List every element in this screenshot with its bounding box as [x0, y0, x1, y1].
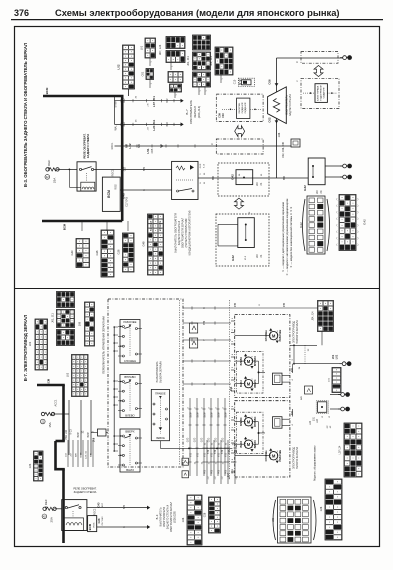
svg-text:G48: G48 [97, 518, 101, 523]
svg-text:B/R: B/R [166, 98, 169, 102]
svg-text:ВСМ: ВСМ [63, 223, 67, 230]
svg-text:M: M [272, 453, 276, 458]
svg-text:СИДЕНИЙ: СИДЕНИЙ [244, 102, 247, 113]
svg-text:L07 J01: L07 J01 [152, 96, 156, 107]
svg-text:ROS: ROS [94, 522, 96, 527]
svg-text:① — модели с дистанционным упр: ① — модели с дистанционным управлением з… [281, 202, 285, 272]
svg-text:(: ( [337, 230, 338, 234]
svg-text:1: 1 [151, 83, 153, 84]
svg-text:B/R: B/R [76, 453, 78, 457]
svg-text:L07 L24: L07 L24 [339, 445, 342, 454]
svg-text:ВНИЗ: ВНИЗ [126, 468, 134, 472]
svg-text:C06: C06 [268, 79, 272, 85]
svg-text:J08: J08 [78, 321, 82, 326]
svg-text:G42: G42 [231, 174, 235, 180]
svg-text:B/R: B/R [301, 396, 303, 400]
svg-text:C10: C10 [234, 79, 237, 84]
svg-text:J/C: J/C [327, 425, 329, 429]
svg-text:G/O: G/O [207, 438, 210, 443]
svg-text:P/B: P/B [203, 470, 206, 474]
svg-text:C: C [295, 61, 299, 63]
svg-text:): ) [358, 230, 359, 234]
svg-text:P/Bl: P/Bl [284, 302, 286, 307]
svg-text:M-WH: M-WH [115, 100, 118, 107]
svg-text:1: 1 [172, 66, 174, 67]
svg-text:J09: J09 [92, 437, 96, 442]
svg-text:G42: G42 [231, 255, 235, 261]
svg-text:ВВЕРХ: ВВЕРХ [125, 429, 134, 433]
svg-text:ЗАДНЕГО СТЕКЛА: ЗАДНЕГО СТЕКЛА [86, 134, 90, 159]
svg-text:M: M [272, 333, 276, 338]
svg-text:376: 376 [14, 8, 29, 18]
svg-text:J04, J14: J04, J14 [312, 311, 315, 321]
svg-text:L23: L23 [309, 420, 312, 425]
svg-text:214: 214 [227, 472, 230, 477]
svg-text:B/R: B/R [284, 176, 286, 180]
svg-text:Y/Bl: Y/Bl [228, 449, 231, 454]
svg-text:② — модели с автоматическим уп: ② — модели с автоматическим управлением … [285, 198, 289, 275]
svg-text:PNK L03: PNK L03 [65, 430, 68, 440]
svg-text:L02: L02 [117, 64, 121, 70]
svg-text:U07, L24: U07, L24 [158, 44, 162, 55]
svg-text:B/R: B/R [166, 122, 169, 126]
svg-text:ВПРАВО: ВПРАВО [124, 375, 136, 379]
svg-text:Модели с оборудованием зеркал: Модели с оборудованием зеркал [315, 445, 317, 481]
svg-text:РЕЛЕ ОБОГРЕВАТ.: РЕЛЕ ОБОГРЕВАТ. [83, 133, 87, 158]
svg-text:C01: C01 [141, 71, 145, 76]
svg-text:): ) [358, 223, 359, 227]
svg-text:ПЕРЕКЛЮЧАТЕЛЬ УПРАВЛЕНИЯ ЗЕРКА: ПЕРЕКЛЮЧАТЕЛЬ УПРАВЛЕНИЯ ЗЕРКАЛАМИ [102, 316, 106, 374]
svg-text:G43: G43 [97, 502, 101, 507]
svg-text:L23: L23 [272, 517, 275, 522]
svg-text:G07: G07 [124, 166, 127, 171]
svg-text:Y/G: Y/G [198, 453, 200, 457]
svg-text:Bl/W: Bl/W [211, 412, 214, 418]
svg-text:РАБОЧЕЕ: РАБОЧЕЕ [123, 320, 136, 324]
svg-text:ROC2: ROC2 [94, 508, 97, 515]
svg-text:B/R: B/R [143, 167, 146, 171]
svg-text:B/R: B/R [213, 176, 215, 180]
svg-text:15A: 15A [48, 422, 52, 427]
svg-text:P/B: P/B [217, 470, 220, 474]
svg-text:1: 1 [176, 94, 178, 95]
svg-text:G32: G32 [299, 222, 303, 228]
svg-text:(: ( [337, 210, 338, 214]
svg-text:): ) [358, 197, 359, 201]
svg-text:ПРАВОЕ: ПРАВОЕ [155, 392, 166, 396]
svg-text:ЗАДНЕГО СТЕКЛА: ЗАДНЕГО СТЕКЛА [289, 94, 292, 116]
svg-text:BCM: BCM [88, 523, 92, 530]
svg-text:C02, C06, C09: C02, C06, C09 [282, 141, 285, 157]
svg-text:C17 G43: C17 G43 [102, 516, 104, 526]
svg-text:WAL: WAL [115, 125, 118, 131]
svg-text:G26: G26 [182, 517, 185, 522]
svg-text:G08: G08 [278, 132, 281, 137]
svg-text:Bl/W: Bl/W [190, 412, 193, 418]
svg-text:G/O: G/O [193, 438, 196, 443]
svg-text:25A: 25A [53, 178, 57, 183]
svg-text:J06: J06 [125, 143, 128, 148]
svg-text:G/O: G/O [200, 438, 203, 443]
svg-text:Bl/W: Bl/W [87, 432, 90, 438]
svg-text:B/R: B/R [91, 453, 93, 457]
svg-text:ЛЕВОГО ЗЕРКАЛА: ЛЕВОГО ЗЕРКАЛА [296, 447, 299, 469]
svg-text:G/O: G/O [214, 438, 217, 443]
svg-text:B/R: B/R [123, 122, 126, 126]
svg-text:G43: G43 [70, 250, 74, 255]
svg-text:C: C [210, 143, 214, 145]
svg-text:RR DEF: RR DEF [44, 499, 48, 510]
svg-text:J01, J11: J01, J11 [51, 313, 55, 323]
svg-text:СИДЕНИЙ: СИДЕНИЙ [323, 87, 326, 98]
svg-text:P/Bl: P/Bl [203, 320, 206, 325]
svg-text:C05: C05 [150, 148, 154, 153]
svg-text:M: M [247, 359, 251, 364]
svg-text:B/R: B/R [123, 98, 126, 102]
svg-text:Y/Bl: Y/Bl [221, 449, 224, 454]
svg-text:ACC1: ACC1 [54, 399, 58, 406]
svg-text:J/C: J/C [315, 190, 319, 194]
svg-text:B/R: B/R [123, 505, 126, 509]
svg-text:Bl/W: Bl/W [225, 412, 228, 418]
svg-text:M: M [247, 419, 251, 424]
svg-text:③ — модели без навигационной с: ③ — модели без навигационной системы ④ ⑤… [289, 206, 293, 268]
svg-text:L01: L01 [140, 45, 144, 50]
svg-text:КОНДИЦИОНЕРОМ И ОТОПИТЕЛЕМ): КОНДИЦИОНЕРОМ И ОТОПИТЕЛЕМ) [189, 210, 192, 255]
svg-text:(: ( [337, 243, 338, 247]
svg-text:В-3. ОБОГРЕВАТЕЛЬ ЗАДНЕГО СТЕК: В-3. ОБОГРЕВАТЕЛЬ ЗАДНЕГО СТЕКЛА И ОБОГР… [23, 43, 28, 187]
svg-text:): ) [358, 217, 359, 221]
svg-text:(: ( [337, 236, 338, 240]
svg-text:J01: J01 [331, 354, 335, 359]
svg-text:1: 1 [206, 90, 208, 91]
svg-text:(: ( [337, 223, 338, 227]
svg-text:G/O: G/O [221, 438, 224, 443]
svg-text:ЛЕВОЕ: ЛЕВОЕ [156, 436, 165, 440]
svg-text:L01: L01 [335, 354, 339, 359]
svg-text:G48: G48 [320, 506, 323, 511]
svg-text:БЛОК УПРАВЛ.: БЛОК УПРАВЛ. [317, 85, 320, 101]
svg-text:C10: C10 [221, 113, 225, 118]
svg-text:L24 J11: L24 J11 [86, 450, 88, 458]
svg-text:M: M [247, 442, 251, 447]
svg-text:ВЛЕВО: ВЛЕВО [125, 413, 135, 417]
svg-text:Bl/W: Bl/W [218, 412, 221, 418]
svg-text:ROC2: ROC2 [112, 169, 115, 176]
svg-text:BCM: BCM [107, 190, 111, 198]
svg-text:ЗАДНЕГО СТЕКЛА: ЗАДНЕГО СТЕКЛА [74, 490, 97, 494]
svg-text:(J04,J14): (J04,J14) [197, 106, 201, 119]
svg-text:Y/Bl: Y/Bl [207, 449, 210, 454]
svg-text:Y/Bl: Y/Bl [235, 449, 238, 454]
svg-text:G: G [203, 383, 206, 385]
svg-text:P/B: P/B [231, 470, 234, 474]
svg-text:СИДЕНИЙ: СИДЕНИЙ [241, 102, 244, 113]
svg-text:ВЫБОРА ЗЕРКАЛА: ВЫБОРА ЗЕРКАЛА [160, 361, 163, 383]
svg-text:L02: L02 [128, 143, 132, 149]
svg-text:G42: G42 [363, 219, 367, 225]
svg-text:J/C: J/C [255, 182, 259, 186]
svg-text:Bl/W: Bl/W [77, 432, 80, 438]
svg-text:C02: C02 [268, 117, 272, 123]
svg-text:G/O: G/O [186, 438, 189, 443]
svg-text:Y/G: Y/G [191, 453, 193, 457]
svg-text:Y/Bl: Y/Bl [214, 449, 217, 454]
svg-text:C17 G43: C17 G43 [126, 197, 129, 207]
svg-text:P/Bl: P/Bl [235, 302, 237, 307]
svg-text:J01, J11: J01, J11 [186, 56, 190, 66]
svg-text:P/B: P/B [224, 470, 227, 474]
svg-text:(: ( [337, 217, 338, 221]
svg-text:В-7. ЭЛЕКТРОПРИВОД ЗЕРКАЛ: В-7. ЭЛЕКТРОПРИВОД ЗЕРКАЛ [23, 315, 28, 381]
svg-text:): ) [358, 210, 359, 214]
svg-text:Bl/W: Bl/W [204, 412, 207, 418]
svg-text:25A: 25A [50, 517, 54, 522]
svg-text:1: 1 [151, 61, 153, 62]
svg-text:G43: G43 [29, 463, 32, 468]
svg-text:ПОДОГРЕВОМ: ПОДОГРЕВОМ [321, 85, 323, 101]
svg-text:(: ( [337, 197, 338, 201]
svg-text:): ) [358, 204, 359, 208]
svg-text:РАБОЧЕЕ: РАБОЧЕЕ [279, 329, 282, 341]
svg-text:ОБОГРЕВ.: ОБОГРЕВ. [239, 102, 241, 113]
svg-text:L24 J11: L24 J11 [152, 120, 156, 131]
svg-text:Bl/W: Bl/W [197, 412, 200, 418]
svg-text:B/R: B/R [138, 144, 141, 148]
svg-text:РАБОЧЕЕ: РАБОЧЕЕ [279, 450, 282, 462]
svg-text:RR DEF: RR DEF [47, 160, 51, 171]
svg-text:G26: G26 [117, 249, 121, 254]
svg-text:): ) [358, 243, 359, 247]
svg-text:В–3: В–3 [155, 514, 159, 519]
svg-text:(G26,G28): (G26,G28) [174, 511, 177, 523]
svg-text:G32: G32 [303, 185, 307, 191]
svg-text:G48: G48 [142, 241, 146, 246]
svg-text:P/B: P/B [210, 470, 213, 474]
svg-text:G28: G28 [204, 512, 207, 517]
svg-text:L51: L51 [146, 148, 150, 154]
svg-text:(: ( [337, 204, 338, 208]
svg-text:ПРАВОГО ЗЕРКАЛА: ПРАВОГО ЗЕРКАЛА [296, 320, 299, 344]
svg-text:G36: G36 [95, 250, 99, 255]
svg-text:1: 1 [200, 90, 202, 91]
svg-text:J04, J14: J04, J14 [209, 56, 213, 66]
svg-text:Схемы электрооборудования (мод: Схемы электрооборудования (модели для яп… [55, 7, 340, 18]
svg-text:M: M [247, 381, 251, 386]
svg-text:K-13: K-13 [70, 429, 73, 435]
svg-text:ROS: ROS [115, 184, 118, 190]
svg-text:ROC1: ROC1 [111, 142, 114, 149]
svg-text:BCM: BCM [47, 378, 51, 385]
svg-text:C09: C09 [218, 113, 222, 118]
svg-text:ВСМ: ВСМ [45, 87, 49, 94]
svg-text:СЛОЖЕН: СЛОЖЕН [124, 359, 136, 363]
svg-text:J/C: J/C [255, 254, 259, 258]
svg-text:L24: L24 [316, 418, 319, 423]
svg-text:): ) [358, 236, 359, 240]
svg-text:L03: L03 [28, 341, 32, 346]
svg-text:1: 1 [222, 78, 224, 79]
svg-text:L02: L02 [66, 372, 70, 377]
